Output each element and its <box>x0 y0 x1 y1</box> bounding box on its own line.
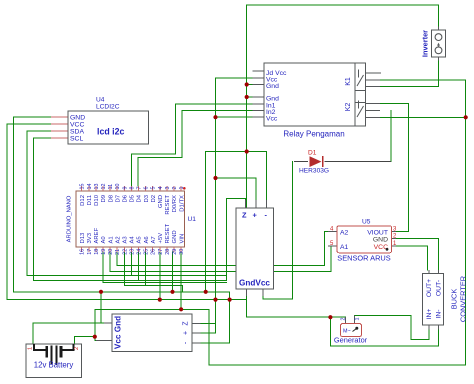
generator <box>334 315 368 344</box>
svg-text:OUT+: OUT+ <box>426 279 433 297</box>
svg-text:+: + <box>253 211 258 220</box>
svg-text:Vcc Gnd: Vcc Gnd <box>114 316 123 349</box>
vcc gnd block <box>96 314 201 352</box>
wire GND bus <box>13 291 229 293</box>
svg-text:IN+: IN+ <box>426 309 433 320</box>
svg-text:1: 1 <box>28 347 34 350</box>
node vcc bus 5v <box>158 298 162 302</box>
svg-text:24: 24 <box>137 249 143 255</box>
wire battery pin2 <box>74 337 94 344</box>
wire gndvcc plus <box>216 178 257 208</box>
svg-text:12: 12 <box>101 184 107 190</box>
svg-text:A1: A1 <box>340 244 349 251</box>
svg-text:IN-: IN- <box>435 309 442 318</box>
wire inverter bottom to K1 <box>380 61 439 87</box>
wire gen1 to IN+ <box>355 315 430 339</box>
node gnd y151 <box>245 149 249 153</box>
wire lcd SDA left loop <box>27 131 51 276</box>
svg-text:GndVcc: GndVcc <box>239 279 270 288</box>
svg-text:Generator: Generator <box>334 336 368 345</box>
svg-text:SDA: SDA <box>70 129 84 136</box>
svg-text:8: 8 <box>129 187 135 190</box>
wire A0 drop <box>102 252 104 283</box>
svg-text:OUT-: OUT- <box>435 280 442 296</box>
svg-text:BUCK: BUCK <box>450 289 459 310</box>
svg-text:D3: D3 <box>144 194 150 202</box>
svg-text:25: 25 <box>144 249 150 255</box>
svg-text:11: 11 <box>108 184 114 190</box>
wire K2 top to sensor VIOUT <box>380 103 409 231</box>
svg-text:29: 29 <box>172 249 178 255</box>
svg-text:RESET: RESET <box>165 195 171 215</box>
svg-text:+5V: +5V <box>158 233 164 244</box>
svg-text:RESET: RESET <box>165 223 171 243</box>
svg-text:A5: A5 <box>137 236 143 244</box>
wire A5 drop <box>138 252 140 281</box>
svg-text:D2: D2 <box>151 195 157 203</box>
node vcc bus x215 <box>213 298 217 302</box>
wire relay in1 to D5 <box>131 104 252 186</box>
wire +5V drop <box>159 252 161 300</box>
wire IN- drop <box>330 317 438 346</box>
svg-text:D10: D10 <box>94 194 100 206</box>
svg-text:22: 22 <box>122 249 128 255</box>
svg-text:K2: K2 <box>345 103 352 112</box>
svg-text:CONVERTER: CONVERTER <box>459 276 468 322</box>
wire gnd drop x205 <box>205 152 207 292</box>
wire A4 drop <box>130 252 132 276</box>
wire A1 to sensor A1 <box>110 246 331 271</box>
svg-text:Gnd: Gnd <box>266 96 279 103</box>
wire Z riser <box>226 199 245 281</box>
node vin <box>179 307 183 311</box>
svg-text:26: 26 <box>151 249 157 255</box>
wire relay gnd2 <box>247 96 253 98</box>
wire K2 mid to diode cathode <box>385 111 391 162</box>
svg-text:A2: A2 <box>340 229 349 236</box>
wire SDA bus <box>27 275 226 277</box>
wire vcc trunk x215 <box>201 78 216 333</box>
svg-text:D8: D8 <box>108 194 114 202</box>
svg-text:10: 10 <box>115 184 121 190</box>
svg-text:LCDI2C: LCDI2C <box>96 104 120 111</box>
svg-text:D6: D6 <box>123 194 129 202</box>
wire inverter top stub <box>438 5 440 27</box>
svg-text:Gnd: Gnd <box>266 83 279 90</box>
svg-text:12v Battery: 12v Battery <box>34 361 74 370</box>
wire sensor VCC to buck OUT+ <box>396 246 427 270</box>
svg-text:U4: U4 <box>96 97 105 104</box>
wire gnd drop to VccGnd minus <box>201 292 230 343</box>
svg-text:SCL: SCL <box>70 136 83 143</box>
arduino pin stubs <box>82 186 181 252</box>
wire relay gnd1 <box>247 84 253 86</box>
svg-text:9: 9 <box>122 187 128 190</box>
svg-text:Z: Z <box>242 211 247 220</box>
wire SCL bus A5 <box>34 280 227 282</box>
wire VCC bus <box>7 299 247 301</box>
buck converter <box>422 270 467 330</box>
node relay gnd2 <box>245 95 249 99</box>
wire lcd GND left loop <box>13 117 51 292</box>
svg-text:2: 2 <box>74 347 80 350</box>
wire i2c link line <box>103 282 226 284</box>
node k right <box>464 115 468 119</box>
svg-text:+: + <box>183 331 190 335</box>
wire relay vcc top <box>216 77 253 79</box>
node gnd bus x101 <box>99 290 103 294</box>
svg-text:D4: D4 <box>137 194 143 202</box>
svg-text:GND: GND <box>373 237 388 244</box>
svg-text:D13: D13 <box>80 232 86 244</box>
svg-text:K1: K1 <box>345 77 352 86</box>
svg-text:21: 21 <box>115 249 121 255</box>
svg-text:15: 15 <box>80 184 86 190</box>
svg-text:VCC: VCC <box>70 122 84 129</box>
svg-text:1: 1 <box>355 318 361 321</box>
node gnd bus arduino <box>170 290 174 294</box>
wire K1 mid right loop <box>380 80 466 117</box>
wire A6 drop <box>145 252 147 286</box>
arduino pin labels <box>80 194 185 243</box>
node vcc bus x229 <box>228 298 232 302</box>
svg-text:GND: GND <box>158 195 164 208</box>
svg-text:HER303G: HER303G <box>299 168 329 175</box>
svg-text:Z: Z <box>183 321 190 326</box>
svg-text:30: 30 <box>179 249 185 255</box>
svg-text:5: 5 <box>151 187 157 190</box>
svg-text:Relay Pengaman: Relay Pengaman <box>283 130 344 139</box>
wire lcd VCC left loop <box>7 124 51 300</box>
wire relay in2 to D4 <box>138 111 253 186</box>
wire relay vcc bottom <box>216 116 253 118</box>
svg-text:D9: D9 <box>101 195 107 203</box>
wire bus 285 <box>124 286 182 292</box>
svg-text:ARDUINO_NANO: ARDUINO_NANO <box>67 195 73 242</box>
svg-text:VIN: VIN <box>179 234 185 244</box>
svg-text:GND: GND <box>70 115 85 122</box>
svg-text:U1: U1 <box>188 216 197 223</box>
svg-text:16: 16 <box>80 249 86 255</box>
node gen in- <box>328 315 332 319</box>
wire lcd SCL left loop <box>34 138 51 281</box>
svg-text:A7: A7 <box>151 236 157 243</box>
svg-text:28: 28 <box>165 249 171 255</box>
svg-text:2: 2 <box>341 318 347 321</box>
svg-text:D5: D5 <box>130 194 136 202</box>
svg-text:A2: A2 <box>115 236 121 243</box>
wire VIN drop <box>180 252 182 309</box>
svg-text:M~: M~ <box>343 329 351 335</box>
wire diode anode to gndvcc pin <box>263 162 293 300</box>
wire right trunk down <box>95 117 466 365</box>
arduino pin numbers <box>80 184 185 255</box>
arduino nano U1 <box>67 184 197 255</box>
wire battery plus to vccgnd pin <box>95 337 112 341</box>
svg-text:13: 13 <box>94 184 100 190</box>
svg-text:A1: A1 <box>108 236 114 243</box>
svg-text:3: 3 <box>165 187 171 190</box>
inverter <box>421 27 446 61</box>
svg-text:4: 4 <box>158 187 164 190</box>
svg-text:2: 2 <box>172 187 178 190</box>
svg-text:A4: A4 <box>130 236 136 244</box>
svg-text:GND: GND <box>172 230 178 243</box>
wire vccgnd left pin drop <box>101 292 112 323</box>
svg-text:14: 14 <box>87 184 93 190</box>
wire sensor GND to buck OUT- <box>396 239 438 270</box>
wire gnd line y151 <box>206 152 267 209</box>
node gndvcc plus <box>213 176 217 180</box>
svg-text:Inverter: Inverter <box>421 30 430 57</box>
relay pengaman <box>253 63 381 139</box>
svg-text:D1/TX: D1/TX <box>179 195 185 212</box>
wire K2 bottom <box>380 116 466 118</box>
svg-text:6: 6 <box>144 187 150 190</box>
svg-text:D11: D11 <box>87 195 93 205</box>
svg-text:27: 27 <box>158 249 164 255</box>
sensor arus U5 <box>328 219 397 263</box>
svg-text:A3: A3 <box>123 236 129 244</box>
svg-text:AREF: AREF <box>94 227 100 243</box>
lcd module U4 <box>51 97 149 145</box>
svg-text:VIOUT: VIOUT <box>367 229 388 236</box>
wire vccgnd Z branch <box>201 323 216 325</box>
svg-text:19: 19 <box>101 249 107 255</box>
svg-text:D7: D7 <box>115 195 121 203</box>
svg-text:20: 20 <box>108 249 114 255</box>
svg-text:A0: A0 <box>101 236 107 244</box>
node relay vcc2 <box>213 115 217 119</box>
svg-text:D1: D1 <box>308 150 317 157</box>
node battery plus <box>93 335 97 339</box>
diode D1 HER303G <box>294 150 391 175</box>
wire battery pin1 <box>33 323 101 344</box>
svg-text:7: 7 <box>137 187 143 190</box>
wire GND pin drop <box>172 252 174 292</box>
svg-text:Vcc: Vcc <box>266 116 278 123</box>
svg-text:17: 17 <box>87 249 93 255</box>
wire gnd trunk x246 inverter top <box>247 5 439 317</box>
svg-text:23: 23 <box>129 249 135 255</box>
node relay gnd1 <box>245 82 249 86</box>
svg-text:18: 18 <box>94 249 100 255</box>
svg-text:A6: A6 <box>144 236 150 244</box>
svg-text:D12: D12 <box>80 195 86 206</box>
wire A3 drop <box>123 252 125 286</box>
svg-text:lcd i2c: lcd i2c <box>97 127 124 137</box>
svg-text:D0/RX: D0/RX <box>172 195 178 212</box>
wire gen2 IN- net <box>247 316 346 318</box>
battery 12v <box>26 344 82 378</box>
svg-text:3V3: 3V3 <box>87 232 93 243</box>
node gnd bus x205 <box>204 290 208 294</box>
wire A2 to sensor A2 <box>117 231 330 265</box>
svg-text:U5: U5 <box>362 219 371 226</box>
gndvcc block <box>236 200 274 296</box>
svg-text:SENSOR ARUS: SENSOR ARUS <box>337 254 390 263</box>
